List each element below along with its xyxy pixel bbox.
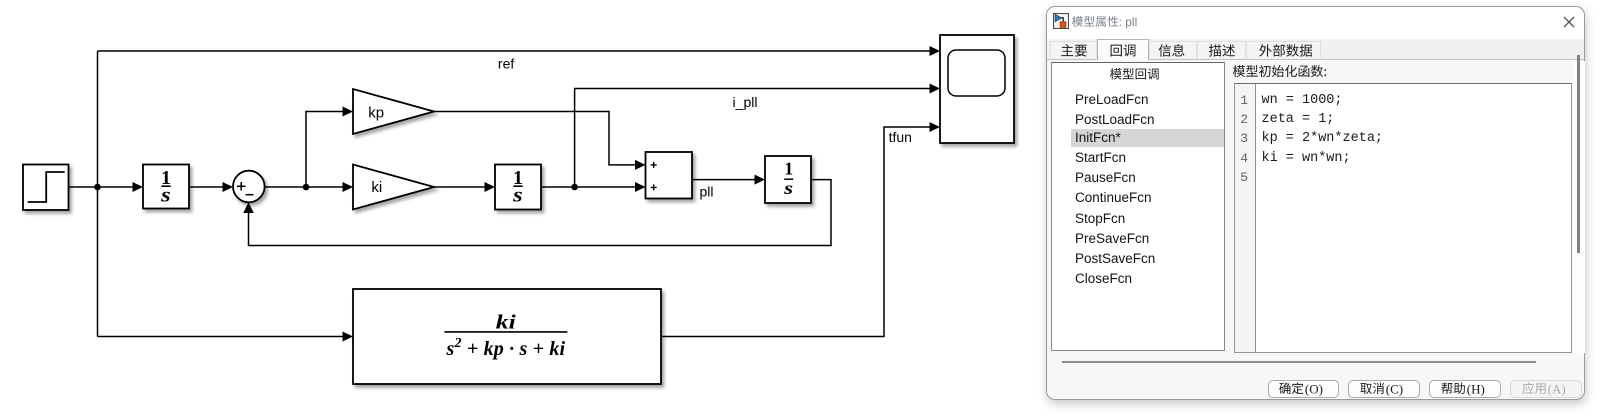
svg-text:ki: ki xyxy=(371,179,382,196)
svg-text:kp: kp xyxy=(368,105,384,122)
svg-text:s: s xyxy=(783,178,794,198)
svg-text:s: s xyxy=(160,184,171,206)
svg-text:tfun: tfun xyxy=(889,129,912,145)
svg-text:i_pll: i_pll xyxy=(733,94,758,110)
svg-text:pll: pll xyxy=(700,183,714,199)
svg-text:s2 + kp · s + ki: s2 + kp · s + ki xyxy=(446,336,566,360)
svg-text:s: s xyxy=(512,184,523,206)
svg-text:ki: ki xyxy=(496,311,517,333)
svg-text:1: 1 xyxy=(784,159,793,179)
svg-text:ref: ref xyxy=(498,56,514,72)
